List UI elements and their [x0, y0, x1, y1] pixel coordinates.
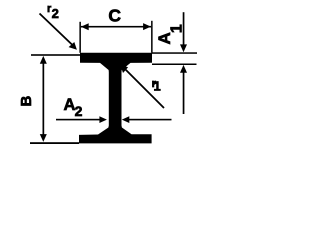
top-left extension line (flange top, to the left) [31, 54, 80, 56]
C left extension line [79, 22, 81, 53]
svg-text:B: B [18, 96, 35, 107]
svg-text:2: 2 [75, 103, 83, 119]
C dimension line [81, 26, 151, 28]
svg-text:1: 1 [154, 79, 161, 94]
A2 dimension line right segment [128, 119, 172, 121]
flange-top extension line right [152, 52, 197, 54]
bottom-left extension line (beam bottom, to the left) [30, 142, 79, 144]
C right extension line [151, 21, 153, 53]
A2 right-pointing arrowhead [99, 116, 107, 123]
A1 up arrowhead [180, 65, 187, 73]
r1 arrowhead [120, 65, 128, 73]
A2 dimension line left segment [56, 119, 100, 121]
r2 leader line [40, 14, 74, 47]
A1 lower vertical line [183, 69, 185, 114]
r1 leader line [124, 68, 165, 109]
r2 arrowhead [69, 42, 77, 50]
A1 upper vertical line [183, 12, 185, 45]
C right arrowhead [143, 23, 151, 30]
A1 down arrowhead [180, 44, 187, 52]
svg-text:C: C [108, 6, 121, 26]
B bottom arrowhead (down) [40, 134, 47, 142]
A2 left-pointing arrowhead [122, 116, 130, 123]
svg-text:1: 1 [168, 24, 185, 33]
B top arrowhead (up) [40, 56, 47, 64]
C left arrowhead [81, 23, 89, 30]
svg-text:2: 2 [52, 6, 59, 21]
dimension B vertical line [43, 58, 45, 136]
flange-bottom extension line right [152, 64, 197, 66]
I-beam cross-section silhouette [79, 53, 152, 144]
